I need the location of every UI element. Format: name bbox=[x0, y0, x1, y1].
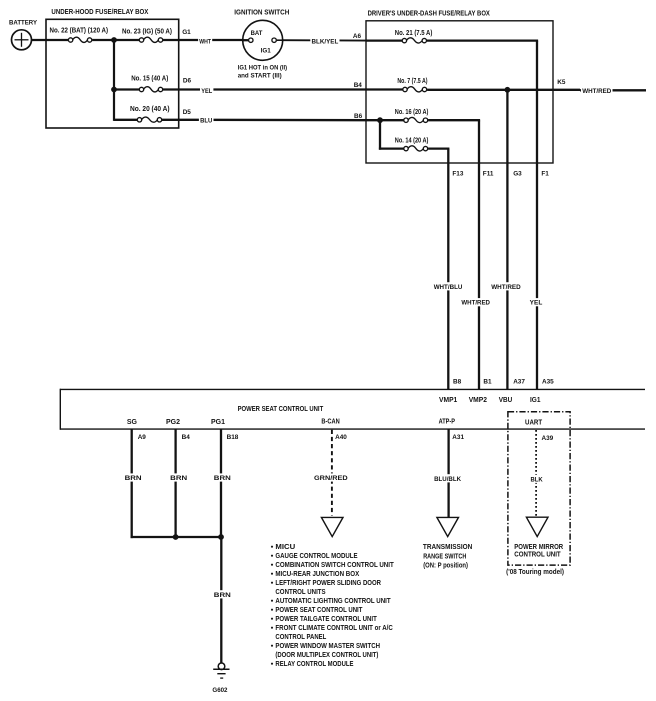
svg-text:WHT: WHT bbox=[199, 39, 211, 46]
svg-text:RANGE SWITCH: RANGE SWITCH bbox=[423, 552, 466, 561]
svg-text:VMP1: VMP1 bbox=[439, 397, 457, 404]
wire A6 row to fuse21 bbox=[366, 39, 404, 41]
wire junction to fuse20 bbox=[114, 119, 140, 121]
svg-text:VMP2: VMP2 bbox=[469, 397, 487, 404]
node junction PG2 ground bbox=[173, 534, 179, 540]
fuse No.7 (7.5 A) bbox=[397, 76, 428, 92]
node junction B6 tap bbox=[377, 117, 383, 123]
svg-text:BRN: BRN bbox=[170, 475, 187, 482]
svg-text:BATTERY: BATTERY bbox=[9, 19, 38, 26]
svg-text:BRN: BRN bbox=[214, 475, 231, 482]
wire fuse22 to fuse23 bbox=[92, 39, 141, 41]
svg-text:B1: B1 bbox=[483, 378, 492, 385]
fuse No.22 (BAT) (120 A) bbox=[50, 26, 109, 43]
svg-text:No. 14 (20 A): No. 14 (20 A) bbox=[395, 135, 429, 144]
svg-text:AUTOMATIC LIGHTING CONTROL UNI: AUTOMATIC LIGHTING CONTROL UNIT bbox=[275, 598, 391, 605]
connector arrow UART bbox=[526, 517, 548, 536]
wire D5 out of box bbox=[162, 109, 199, 120]
connector arrow ATP-P bbox=[437, 517, 459, 536]
svg-text:B6: B6 bbox=[354, 113, 363, 120]
wire B6 drop to fuse14 row bbox=[379, 120, 381, 150]
svg-text:and START (III): and START (III) bbox=[238, 73, 282, 80]
svg-text:B4: B4 bbox=[354, 82, 363, 89]
power seat control unit box bbox=[60, 389, 645, 430]
svg-text:D5: D5 bbox=[183, 109, 192, 116]
svg-text:(ON: P position): (ON: P position) bbox=[423, 560, 468, 569]
wire junction to fuse15 bbox=[114, 88, 142, 90]
svg-text:MICU: MICU bbox=[275, 544, 295, 551]
wire BLK/YEL ignition to driver box A6 bbox=[283, 37, 366, 46]
svg-text:BLK/YEL: BLK/YEL bbox=[312, 39, 339, 46]
svg-text:CONTROL UNIT: CONTROL UNIT bbox=[514, 550, 561, 559]
wire WHT to ignition switch bbox=[198, 37, 248, 46]
svg-text:G3: G3 bbox=[513, 171, 522, 178]
B-CAN destination list bbox=[271, 544, 394, 668]
svg-text:PG1: PG1 bbox=[211, 419, 225, 426]
svg-text:YEL: YEL bbox=[530, 300, 543, 307]
svg-text:A39: A39 bbox=[542, 435, 554, 442]
fuse No.16 (20 A) bbox=[395, 107, 429, 122]
svg-text:WHT/RED: WHT/RED bbox=[582, 88, 611, 95]
node junction row2 bbox=[111, 87, 117, 93]
svg-text:('08 Touring model): ('08 Touring model) bbox=[506, 567, 564, 576]
wire fuse16 to F11 corner bbox=[428, 119, 480, 121]
svg-text:A6: A6 bbox=[353, 33, 362, 40]
battery bbox=[9, 19, 38, 49]
svg-text:MICU-REAR JUNCTION BOX: MICU-REAR JUNCTION BOX bbox=[275, 571, 359, 578]
svg-text:CONTROL UNITS: CONTROL UNITS bbox=[275, 589, 325, 596]
wire UART dotted BLK bbox=[529, 430, 544, 516]
svg-text:A37: A37 bbox=[513, 378, 525, 385]
svg-text:GAUGE CONTROL MODULE: GAUGE CONTROL MODULE bbox=[275, 553, 357, 560]
svg-text:IGNITION SWITCH: IGNITION SWITCH bbox=[234, 8, 289, 17]
fuse No.20 (40 A) bbox=[130, 104, 170, 122]
svg-text:B18: B18 bbox=[227, 434, 239, 441]
svg-text:LEFT/RIGHT POWER SLIDING DOOR: LEFT/RIGHT POWER SLIDING DOOR bbox=[275, 580, 381, 587]
svg-text:IG1: IG1 bbox=[530, 397, 541, 404]
svg-text:No. 16 (20 A): No. 16 (20 A) bbox=[395, 107, 429, 116]
svg-text:A35: A35 bbox=[542, 378, 554, 385]
svg-text:DRIVER'S UNDER-DASH FUSE/RELAY: DRIVER'S UNDER-DASH FUSE/RELAY BOX bbox=[368, 8, 490, 17]
wire YEL to driver box B4 bbox=[200, 86, 366, 95]
node junction PG1 ground bbox=[218, 534, 224, 540]
wire B-CAN dashed GRN/RED bbox=[313, 430, 349, 516]
wire fuse7 across to K5 bbox=[427, 89, 580, 91]
svg-text:No. 20 (40 A): No. 20 (40 A) bbox=[130, 104, 170, 113]
svg-text:VBU: VBU bbox=[499, 397, 513, 404]
wire ATP-P BLU/BLK bbox=[433, 429, 462, 517]
svg-text:BLU/BLK: BLU/BLK bbox=[434, 476, 461, 483]
svg-text:B8: B8 bbox=[453, 378, 462, 385]
svg-text:No. 7 (7.5 A): No. 7 (7.5 A) bbox=[397, 76, 428, 85]
wire SG BRN bbox=[123, 429, 142, 538]
wire BRN to ground bbox=[213, 537, 232, 663]
node junction G3 tap bbox=[505, 87, 511, 93]
svg-text:PG2: PG2 bbox=[166, 419, 180, 426]
svg-text:FRONT CLIMATE CONTROL UNIT or: FRONT CLIMATE CONTROL UNIT or A/C bbox=[275, 625, 392, 632]
wire G3 vertical WHT/RED bbox=[490, 90, 522, 390]
svg-text:CONTROL PANEL: CONTROL PANEL bbox=[275, 634, 327, 641]
fuse No.21 (7.5 A) bbox=[395, 28, 433, 43]
power mirror dash-dot box bbox=[508, 412, 570, 565]
svg-text:K5: K5 bbox=[557, 79, 566, 86]
svg-text:BRN: BRN bbox=[125, 475, 142, 482]
svg-text:B-CAN: B-CAN bbox=[321, 419, 339, 426]
svg-text:B4: B4 bbox=[182, 434, 191, 441]
wire G1 out of box bbox=[163, 29, 199, 40]
wire PG2 BRN bbox=[169, 429, 188, 537]
svg-text:ATP-P: ATP-P bbox=[439, 419, 456, 426]
wire fuse21 to F1 corner bbox=[427, 39, 538, 41]
svg-text:SG: SG bbox=[127, 419, 138, 426]
svg-text:WHT/BLU: WHT/BLU bbox=[434, 284, 463, 291]
wire F1 vertical YEL bbox=[529, 41, 544, 390]
svg-text:A9: A9 bbox=[138, 434, 147, 441]
svg-text:POWER SEAT CONTROL UNIT: POWER SEAT CONTROL UNIT bbox=[238, 404, 324, 413]
svg-text:RELAY CONTROL MODULE: RELAY CONTROL MODULE bbox=[275, 661, 353, 668]
svg-text:UNDER-HOOD FUSE/RELAY BOX: UNDER-HOOD FUSE/RELAY BOX bbox=[51, 7, 148, 16]
svg-text:WHT/RED: WHT/RED bbox=[461, 300, 490, 307]
svg-text:YEL: YEL bbox=[201, 88, 212, 95]
wire fuse14 to F13 corner bbox=[428, 147, 449, 149]
fuse No.14 (20 A) bbox=[395, 135, 429, 151]
transmission range switch label bbox=[423, 542, 472, 570]
wire ground bus horizontal bbox=[131, 536, 223, 538]
svg-text:D6: D6 bbox=[183, 78, 192, 85]
svg-text:BRN: BRN bbox=[214, 592, 231, 599]
svg-text:UART: UART bbox=[525, 420, 543, 427]
fuse No.23 (IG) (50 A) bbox=[122, 27, 173, 43]
node junction main feed bbox=[111, 37, 117, 43]
ground G602 bbox=[212, 663, 229, 694]
wire F11 vertical WHT/RED bbox=[460, 120, 491, 389]
svg-text:(DOOR MULTIPLEX CONTROL UNIT): (DOOR MULTIPLEX CONTROL UNIT) bbox=[275, 652, 378, 659]
svg-text:IG1 HOT in ON (II): IG1 HOT in ON (II) bbox=[238, 64, 287, 71]
svg-text:F1: F1 bbox=[541, 171, 549, 178]
svg-text:F13: F13 bbox=[452, 171, 463, 178]
fuse No.15 (40 A) bbox=[131, 73, 169, 92]
svg-text:POWER TAILGATE CONTROL UNIT: POWER TAILGATE CONTROL UNIT bbox=[275, 616, 377, 623]
svg-text:F11: F11 bbox=[483, 171, 494, 178]
svg-text:No. 15 (40 A): No. 15 (40 A) bbox=[131, 73, 169, 82]
svg-text:COMBINATION SWITCH CONTROL UNI: COMBINATION SWITCH CONTROL UNIT bbox=[275, 562, 394, 569]
wire WHT/RED out right bbox=[580, 86, 646, 95]
svg-text:G602: G602 bbox=[212, 687, 227, 694]
svg-text:BLK: BLK bbox=[531, 476, 544, 483]
wire D6 out of box bbox=[163, 78, 200, 90]
svg-text:WHT/RED: WHT/RED bbox=[491, 284, 521, 291]
wire PG1 BRN bbox=[213, 429, 232, 537]
wire vertical feed inside under-hood box bbox=[113, 40, 115, 121]
wire F13 vertical WHT/BLU bbox=[433, 149, 464, 390]
wire BLU to driver box B6 bbox=[199, 116, 366, 125]
svg-text:POWER SEAT CONTROL UNIT: POWER SEAT CONTROL UNIT bbox=[275, 607, 363, 614]
note IG1 HOT bbox=[238, 64, 287, 79]
svg-text:G1: G1 bbox=[182, 29, 191, 36]
svg-text:A40: A40 bbox=[335, 434, 347, 441]
driver's under-dash fuse/relay box bbox=[366, 8, 553, 163]
connector arrow B-CAN bbox=[321, 517, 343, 536]
svg-text:TRANSMISSION: TRANSMISSION bbox=[423, 542, 472, 551]
power mirror control unit label bbox=[514, 542, 563, 559]
svg-text:No. 22 (BAT) (120 A): No. 22 (BAT) (120 A) bbox=[50, 26, 109, 35]
svg-text:BLU: BLU bbox=[200, 118, 213, 125]
under-hood fuse/relay box bbox=[46, 7, 179, 128]
svg-text:No. 23 (IG) (50 A): No. 23 (IG) (50 A) bbox=[122, 27, 173, 36]
svg-text:A31: A31 bbox=[452, 434, 464, 441]
ignition switch bbox=[234, 8, 289, 61]
svg-text:IG1: IG1 bbox=[261, 48, 271, 55]
wire B6 row to fuse16 bbox=[366, 119, 406, 121]
wire battery to under-hood box bbox=[32, 39, 71, 41]
svg-text:GRN/RED: GRN/RED bbox=[314, 475, 348, 482]
svg-text:BAT: BAT bbox=[251, 30, 263, 37]
svg-text:No. 21 (7.5 A): No. 21 (7.5 A) bbox=[395, 28, 433, 37]
svg-text:POWER WINDOW MASTER SWITCH: POWER WINDOW MASTER SWITCH bbox=[275, 643, 380, 650]
wire B4 row to fuse7 bbox=[366, 88, 405, 90]
